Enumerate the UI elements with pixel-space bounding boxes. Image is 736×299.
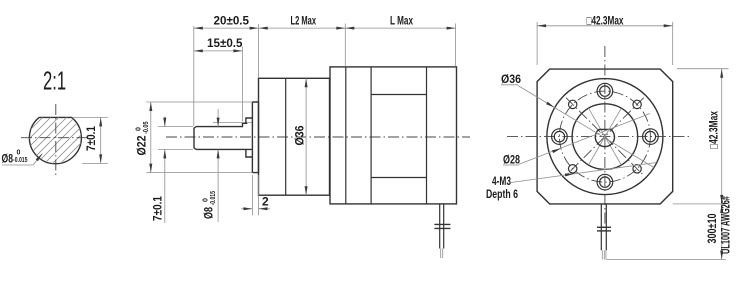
M3 tapped hole top-right bbox=[633, 100, 641, 108]
svg-text:2:1: 2:1 bbox=[43, 66, 66, 96]
svg-text:0: 0 bbox=[17, 150, 21, 157]
motor stator stack edges bbox=[370, 67, 372, 204]
svg-text:-0.015: -0.015 bbox=[210, 191, 217, 206]
dimension 7±0.1 (side flat) bbox=[158, 126, 193, 128]
bolt circle Ø28 (dash-dot) bbox=[559, 91, 650, 182]
side view centerline (shaft axis) bbox=[166, 136, 470, 138]
dimension 300±10 bbox=[721, 204, 723, 260]
dimension □42.3Max (top) bbox=[536, 22, 538, 65]
svg-text:Ø28: Ø28 bbox=[503, 153, 520, 167]
dimension 20±0.5 bbox=[193, 26, 195, 126]
svg-text:L Max: L Max bbox=[390, 13, 413, 27]
front view lead wire bbox=[600, 204, 602, 250]
shaft flat edge line bbox=[213, 122, 252, 124]
svg-text:15±0.5: 15±0.5 bbox=[207, 36, 243, 50]
svg-text:Ø36: Ø36 bbox=[501, 72, 521, 86]
M3 tapped hole bottom-right bbox=[633, 165, 641, 173]
motor lead wires (side view) bbox=[439, 204, 441, 249]
label UL1007 AWG26# bbox=[719, 196, 733, 254]
mounting hole left bbox=[552, 129, 568, 145]
mounting hole right bbox=[643, 129, 659, 145]
dimension L Max bbox=[455, 24, 457, 67]
dimension L2 Max bbox=[344, 24, 346, 67]
dimension 2 (plate thickness) bbox=[251, 175, 253, 215]
M3 tapped hole top-left bbox=[569, 100, 577, 108]
svg-text:0: 0 bbox=[136, 127, 143, 131]
svg-text:Ø36: Ø36 bbox=[293, 125, 307, 145]
detail vertical centerline bbox=[55, 104, 57, 178]
shaft collar bbox=[246, 118, 253, 157]
inner circle bbox=[572, 104, 638, 170]
svg-text:2: 2 bbox=[262, 195, 269, 209]
svg-text:20±0.5: 20±0.5 bbox=[214, 13, 250, 27]
svg-text:□42.3Max: □42.3Max bbox=[587, 13, 624, 27]
gearbox body bbox=[259, 78, 330, 195]
front vertical centerline bbox=[604, 46, 606, 227]
front horizontal centerline bbox=[507, 136, 692, 138]
svg-text:300±10: 300±10 bbox=[705, 213, 719, 243]
dimension Ø36 (gearbox) bbox=[305, 78, 307, 195]
svg-text:UL1007 AWG26#: UL1007 AWG26# bbox=[719, 196, 733, 254]
svg-text:□42.3Max: □42.3Max bbox=[707, 111, 721, 149]
svg-text:4-M3: 4-M3 bbox=[492, 174, 511, 188]
dimension □42.3Max (right) bbox=[677, 68, 729, 70]
svg-text:Ø22: Ø22 bbox=[135, 135, 149, 155]
motor front end-bell edge bbox=[345, 67, 347, 204]
outer circle Ø36 bbox=[547, 79, 663, 195]
mounting hole top bbox=[597, 83, 613, 99]
svg-text:0: 0 bbox=[203, 198, 210, 202]
svg-text:Ø8: Ø8 bbox=[2, 152, 14, 166]
output shaft Ø8 with flat bbox=[194, 123, 252, 149]
dimension 7±0.1 (detail) bbox=[73, 116, 108, 118]
svg-text:-0.05: -0.05 bbox=[143, 121, 150, 134]
shaft end with flat (front) bbox=[595, 129, 614, 146]
mounting square with chamfered corners bbox=[537, 69, 673, 204]
svg-text:-0.015: -0.015 bbox=[13, 157, 28, 164]
dimension Ø8 0/-0.015 (side) bbox=[217, 109, 219, 127]
radial spokes 60/120 bbox=[589, 108, 622, 165]
svg-text:Ø8: Ø8 bbox=[202, 207, 216, 219]
svg-text:Depth 6: Depth 6 bbox=[486, 187, 518, 201]
mounting hole bottom bbox=[597, 174, 613, 190]
detail horizontal centerline bbox=[21, 137, 91, 139]
dimension 15±0.5 bbox=[241, 47, 243, 122]
svg-text:7±0.1: 7±0.1 bbox=[84, 126, 98, 151]
Ø22 pilot plate bbox=[252, 102, 258, 173]
scale label 2:1 bbox=[43, 66, 66, 96]
diagonal centerlines 45° bbox=[566, 98, 644, 176]
hatching bbox=[20, 60, 100, 212]
wire end extension line bbox=[606, 259, 726, 261]
motor body bbox=[330, 67, 457, 204]
M3 tapped hole bottom-left bbox=[569, 165, 577, 173]
gearbox internal edge bbox=[285, 78, 287, 195]
svg-text:L2 Max: L2 Max bbox=[291, 13, 317, 27]
dimension Ø22 0/-0.05 bbox=[146, 101, 252, 103]
shaft section circle with flat (D-cut) bbox=[29, 117, 81, 163]
svg-text:7±0.1: 7±0.1 bbox=[151, 196, 165, 221]
